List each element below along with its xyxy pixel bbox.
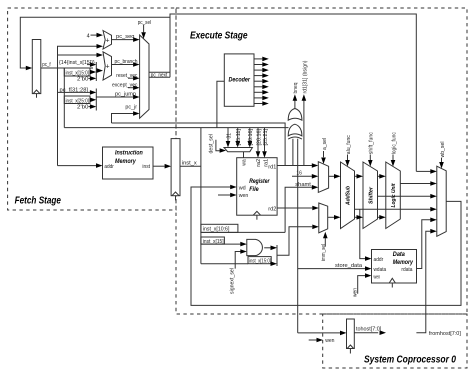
arrowhead pc_jump [133,95,140,100]
arrowhead ra2 [256,151,261,158]
mux wb_sel [437,166,446,236]
arrowhead slice2016a [248,141,253,148]
alu Logic Unit [386,162,401,229]
svg-text:[20:16]: [20:16] [256,128,262,145]
arrowhead b chain 2 [357,215,364,220]
arrowhead tohost data [340,331,347,336]
arrowhead wd [230,185,237,190]
svg-text:+: + [106,63,110,70]
wire rd1 [277,165,312,167]
wire dest mux to wa [243,152,245,158]
arrowhead box3 out [271,261,278,266]
register inst_x [171,139,180,196]
wire rd1 return line L1 [112,123,286,166]
arrowhead wb in2 [430,181,437,186]
wire 2'b0 stub 1 [89,77,91,79]
svg-text:inst_x[25:0]: inst_x[25:0] [66,98,90,104]
arrowhead rd2 to imm [312,206,319,211]
svg-text:pc_seq: pc_seq [116,34,135,40]
svg-text:pc_jump: pc_jump [115,92,136,98]
wire except_vec stub [128,87,133,89]
arrowhead imm_sel ctrl [323,232,328,239]
svg-text:Shifter: Shifter [369,186,375,204]
wire pc tap to adders and imem addr [58,46,97,165]
decoder output arrows [254,59,262,104]
arrowhead dmem addr [365,256,372,261]
wire rd2 store tohost column [297,139,299,333]
arrowhead adder2 in1 [97,53,104,58]
arrowhead slice1511 [235,141,240,148]
wire wb link in [416,170,430,172]
wire fromhost [416,231,430,333]
wire slice [20:16] a [249,128,251,141]
alu AddSub [341,162,355,229]
svg-text:logic_func: logic_func [391,132,397,154]
svg-text:File: File [249,186,259,193]
arrowhead tohost wen decor [317,338,324,343]
wire rd2 [277,207,312,209]
arrowhead a chain 1 [334,174,341,179]
svg-text:[15:11]: [15:11] [236,128,242,145]
svg-text:Fetch Stage: Fetch Stage [15,195,62,206]
node concat bar 2 [95,89,97,111]
wire shamt [285,187,312,232]
memory instruction memory [103,147,154,179]
arrowhead dest_sel [220,148,227,153]
arrowhead pc reg input [26,66,33,71]
wire pc_branch [112,64,134,66]
wire and out [264,247,271,249]
wire imem inst to reg [153,165,165,167]
arrowhead wb_sel [439,162,444,169]
label box inst_x[10:6] [201,224,238,232]
svg-text:ra2: ra2 [256,159,262,167]
arrowhead shift_func [368,160,373,167]
svg-text:dest_sel: dest_sel [208,134,214,154]
mux dest_sel [224,148,252,152]
svg-text:rd1: rd1 [268,164,276,170]
svg-text:wen: wen [353,288,359,298]
svg-text:inst_x[15:0]: inst_x[15:0] [249,259,272,265]
gate XOR compare [288,124,302,136]
wire imm_sel stub [324,238,326,247]
arrowhead a chain 3 [379,174,386,179]
wire rdata to wb mux [417,220,431,269]
svg-text:wdata: wdata [373,267,387,273]
svg-text:Memory: Memory [393,259,414,266]
wire pc_seq [112,39,134,41]
wire tohost data in [298,332,341,334]
svg-text:{14{inst_x[15]}}: {14{inst_x[15]}} [59,60,95,66]
svg-text:bneq: bneq [293,83,299,94]
execute stage dashed boundary [176,8,467,314]
decoder U1 [224,54,254,106]
svg-text:[25:21]: [25:21] [263,128,269,145]
label box inst_x[15:0] fetch [64,68,90,76]
arrowhead wb in5 [430,218,437,223]
svg-text:inst: inst [142,164,150,170]
svg-text:Logic Unit: Logic Unit [391,182,397,207]
wire const 4 stub [91,34,97,36]
arrowhead tohost out [380,330,387,335]
gate AND signext [247,239,263,255]
arrowhead adder2 in2 [97,68,103,73]
wire tohost wen decor [309,339,317,341]
wire reset_vec stub [128,77,133,79]
arrowhead wb in3 [430,194,437,199]
wire inst_x out [180,165,201,167]
svg-text:wen: wen [238,193,249,199]
wire concat1 to adder2 [96,70,97,72]
arrowhead wb in6 [430,229,437,234]
arrowhead and in1 [240,242,247,247]
svg-text:except_vec: except_vec [112,82,138,88]
wire slice [15:11] [237,128,239,141]
wire slice 31 [227,128,229,141]
svg-text:Decoder: Decoder [229,76,251,83]
register file [237,158,277,216]
arrowhead b chain 1 [334,215,341,220]
svg-text:Instruction: Instruction [115,150,143,157]
arrowhead concat2 b [90,98,96,103]
memory data memory [372,250,417,284]
wire shifter out [378,195,431,197]
svg-text:AddSub: AddSub [346,185,352,205]
arrowhead a_sel ctrl [321,158,326,165]
arrowhead 16 [312,174,319,179]
svg-text:rd2: rd2 [268,207,276,213]
svg-text:wa: wa [242,158,248,166]
svg-text:wb_sel: wb_sel [440,142,446,159]
svg-text:inst_x: inst_x [182,160,197,166]
svg-text:addr: addr [374,257,384,263]
wire inst_x return line L2 [64,127,288,129]
wire slice [25:21] ra1 [264,128,266,152]
system coprocessor 0 dashed boundary [323,314,467,368]
wire a operand chain [329,175,335,177]
wire shift_func stub [369,155,371,161]
arrowhead pc_seq [133,37,140,42]
arrowhead a chain 2 [357,174,364,179]
svg-text:pc_jr: pc_jr [125,104,137,110]
arrowhead bsign [302,94,307,101]
wire {14{inst_x[15]}} stub [87,64,90,66]
wire concat3 to imm mux [277,227,312,256]
arrowhead concat1 b [90,70,96,75]
wire bsign tap [303,101,305,166]
arrowhead imem addr [96,163,103,168]
wire addsub out [355,208,431,210]
mux a_sel [318,162,328,193]
arrowhead concat3 to imm [312,225,319,230]
label box inst_x[15:0] execute [248,257,271,264]
svg-text:31: 31 [226,133,232,139]
wire logic out [400,183,430,185]
svg-text:store_data: store_data [335,263,363,269]
arrowhead wb in1 [430,169,437,174]
wire bneq out [294,101,296,109]
arrowhead dmem wen [365,273,372,278]
arrowhead adder1 in2 [97,44,104,49]
wire pc_jump [96,96,133,98]
svg-text:Data: Data [393,251,405,258]
wire alu_func stub [347,155,349,161]
fetch stage dashed boundary [8,8,176,210]
wire wb_sel stub [441,158,443,162]
wire signext_sel stub [235,252,240,269]
wire logic_func stub [392,155,394,161]
arrowhead bneq [293,94,298,101]
wire inst_x[15] to and [201,243,241,245]
arrowhead alu_func [345,160,350,167]
svg-text:a_sel: a_sel [322,138,328,150]
wire pc_jr [112,114,134,124]
wire imem addr [58,165,97,167]
svg-text:pc_sel: pc_sel [138,20,151,26]
arrowhead const4 [97,33,104,38]
svg-text:pc_next: pc_next [151,73,168,79]
arrowhead dmem wdata [365,266,372,271]
wire pc feedback top [170,14,416,171]
wire 2'b0 stub 2 [89,106,91,108]
wire b operand chain [328,216,335,218]
svg-text:imm_sel: imm_sel [321,244,327,261]
adder pc_branch [103,52,112,80]
wire inst_x bus drop [200,128,202,264]
wire pc_next label box [149,71,170,73]
svg-text:addr: addr [104,164,114,170]
arrowhead pc_sel [141,32,146,39]
register PC (pc_f) [32,40,41,94]
arrowhead except_vec [133,85,140,90]
svg-text:[20:16]: [20:16] [248,128,254,145]
wire decoder feed [217,81,224,127]
svg-text:alu_func: alu_func [346,135,352,154]
wire a_sel stub [323,151,325,157]
svg-text:Register: Register [249,178,270,185]
wire store_data [298,268,366,270]
svg-text:+: + [106,37,110,44]
arrowhead pc_branch [133,62,140,67]
wire pc_f[31:28] [58,91,91,93]
arrowhead b chain 3 [379,215,386,220]
svg-text:pc_f[31:28]: pc_f[31:28] [60,87,89,93]
svg-text:shift_func: shift_func [369,132,375,154]
arrowhead rd1 to a_sel [312,163,319,168]
wire rf wen stub [218,194,230,196]
arrowhead shamt [312,185,319,190]
wire dmem addr tap [360,209,365,258]
mux pc_next [140,35,149,118]
wire xor input left [292,139,294,166]
svg-text:16: 16 [296,171,302,177]
arrowhead inst [165,164,172,169]
wire inst_x[10:6] shamt line [201,231,285,233]
arrowhead and out [271,246,278,251]
svg-text:wen: wen [324,338,334,344]
svg-text:wen: wen [373,274,380,280]
wire pc_f output [41,67,93,69]
register tohost [347,319,355,349]
svg-text:wd: wd [238,185,246,191]
wire 16 stub [292,175,312,177]
svg-text:shamt: shamt [295,182,311,188]
arrowhead concat1 a [90,62,96,67]
svg-text:pc_branch: pc_branch [115,59,138,65]
svg-text:inst_x[10:6]: inst_x[10:6] [203,227,230,233]
gate OR bneq reduce [288,109,302,121]
svg-text:rd1[31] (bsign): rd1[31] (bsign) [302,60,308,93]
wire dmem wen stub [358,276,366,294]
arrowhead rf wen [230,193,237,198]
svg-text:rdata: rdata [401,267,413,273]
alu Shifter [363,162,378,229]
wire wb writeback to wd [191,187,461,305]
arrowhead ra1 [262,151,267,158]
svg-text:2'b0: 2'b0 [77,105,89,111]
arrowhead pc_jr [133,111,140,116]
svg-text:2'b0: 2'b0 [77,76,89,82]
svg-text:signext_sel: signext_sel [230,268,236,294]
node concat bar 3 [276,245,278,266]
svg-text:pc_f: pc_f [42,62,51,68]
arrowhead reset_vec [133,76,140,81]
label box inst_x[15] [201,237,225,244]
mux imm_sel [319,203,328,233]
arrowhead concat2 c [90,104,96,109]
arrowhead concat2 a [90,90,96,95]
svg-text:4: 4 [87,33,90,39]
arrowhead logic_func [391,160,396,167]
arrowhead and in2 [240,249,247,254]
wire inst_x riser fetch [63,68,65,128]
svg-text:reset_vec: reset_vec [116,73,137,79]
arrowhead concat1 c [90,76,96,81]
adder pc_seq [103,31,112,50]
svg-text:Execute Stage: Execute Stage [190,31,248,42]
svg-text:System Coprocessor 0: System Coprocessor 0 [364,355,456,366]
label box inst_x[25:0] fetch [64,96,90,104]
wire tohost out [354,332,378,334]
arrowhead slice31 [226,141,231,148]
wire inst_x[15:0] feed [201,263,248,265]
node concat bar 1 [95,62,97,81]
wire slice [20:16] b ra2 [257,128,259,152]
arrowhead wb in4 [430,207,437,212]
svg-text:inst_x[15]: inst_x[15] [203,239,224,245]
wire dest_sel stub [216,140,220,151]
wire pc_sel stub [143,25,145,33]
svg-text:tohost[7:0]: tohost[7:0] [356,327,382,333]
svg-text:fromhost[7:0]: fromhost[7:0] [429,331,461,337]
svg-text:Memory: Memory [115,158,136,165]
